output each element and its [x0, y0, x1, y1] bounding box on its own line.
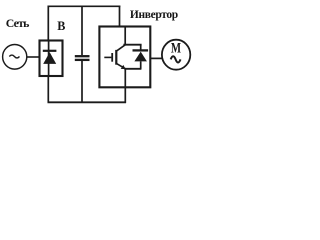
motor M circle — [162, 40, 190, 70]
top rail wire — [48, 5, 121, 7]
wire top rail down to inverter — [119, 6, 121, 27]
wire rectifier bottom to bottom rail — [47, 76, 49, 103]
capacitor C bottom plate — [75, 59, 90, 61]
wire inverter to motor — [150, 57, 162, 59]
bottom rail wire — [48, 101, 127, 103]
rectifier diode wire (vertical) — [48, 41, 50, 76]
rectifier diode VD triangle — [43, 52, 56, 64]
freewheel diode VD top wire — [140, 45, 142, 50]
wire AC source to rectifier — [27, 56, 40, 58]
capacitor C top plate — [75, 55, 90, 57]
freewheel diode cathode bar — [133, 49, 149, 51]
IGBT collector top bar — [123, 44, 141, 46]
rectifier box В — [40, 41, 63, 77]
capacitor C top wire — [81, 6, 83, 56]
IGBT collector diagonal — [117, 45, 126, 51]
capacitor C bottom wire — [81, 61, 83, 103]
motor sine symbol — [171, 56, 181, 62]
inverter box — [99, 27, 150, 88]
rectifier diode cathode bar — [43, 50, 57, 52]
svg-text:Сеть: Сеть — [6, 16, 30, 30]
IGBT main bar — [115, 50, 117, 65]
IGBT VT collector wire (inside box, from top edge) — [124, 27, 126, 45]
AC source sine symbol — [9, 55, 19, 58]
svg-text:В: В — [57, 19, 65, 33]
svg-text:М: М — [171, 40, 181, 56]
IGBT gate lead — [104, 56, 111, 58]
wire rectifier top to top rail — [47, 6, 49, 41]
IGBT gate bar — [111, 53, 113, 62]
AC source G1 (circle with sine) — [3, 45, 27, 70]
svg-text:Инвертор: Инвертор — [130, 9, 178, 21]
IGBT emitter bottom bar — [124, 68, 141, 70]
IGBT emitter diagonal with arrow — [117, 64, 126, 69]
wire bottom rail up to inverter — [124, 88, 126, 104]
IGBT emitter drop wire — [124, 69, 126, 87]
freewheel diode triangle — [134, 52, 147, 62]
freewheel diode bottom wire — [140, 61, 142, 68]
